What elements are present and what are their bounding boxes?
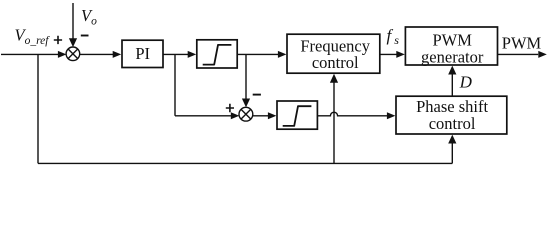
svg-text:PI: PI [135,44,150,63]
wire summing1 to PI [80,53,114,55]
svg-text:D: D [459,73,473,92]
label minus at summing2 [253,94,261,96]
block limiter1 [197,40,237,68]
wire bottom feedback [38,162,452,164]
label plus at summing1 [54,36,62,44]
arrowhead up into phase shift control bottom [448,135,456,144]
wire feedback up to phase shift control [451,143,453,164]
svg-text:Vo_ref: Vo_ref [15,25,51,47]
block PI [122,40,163,67]
wire phase shift control to PWM generator D [451,74,453,96]
wire frequency control to PWM generator [380,53,397,55]
wire input V_o_ref [1,53,58,55]
arrowhead into limiter1 [188,51,197,58]
arrowhead into phase shift control left [387,112,396,119]
summing junction 1 [66,47,80,61]
wire branch node after PI [174,54,176,115]
wire PWM output [498,53,539,55]
arrowhead into PI [113,51,122,58]
wire feedback up to frequency control [333,82,335,163]
wire branch to bottom feedback [37,54,39,163]
wire summing2 to limiter2 [253,115,269,117]
label plus at summing2 [226,104,234,113]
block limiter2 [277,101,317,129]
svg-text:control: control [429,114,476,133]
svg-text:generator: generator [421,48,484,67]
wire to summing2 plus [175,115,231,117]
arrowhead into PWM generator [396,51,405,58]
arrowhead up into PWM generator D [448,66,456,75]
wire limiter1 branch to summing2 minus [245,54,247,99]
arrowhead PWM output [538,51,547,58]
svg-text:PWM: PWM [502,34,542,53]
arrowhead into summing2 plus [231,112,240,119]
wire PI to limiter1 [163,53,189,55]
arrowhead into limiter2 [268,112,277,119]
arrowhead into summing1 [58,51,67,58]
label minus at summing1 [81,35,89,37]
svg-text:control: control [312,53,359,72]
wire V_o drop [72,3,74,39]
svg-text:Vo: Vo [81,6,97,28]
svg-text:PWM: PWM [432,30,472,49]
block frequency control [287,34,380,73]
summing junction 2 [239,107,253,121]
arrowhead up into frequency control [330,74,338,83]
wire limiter1 to frequency control [237,53,278,55]
arrowhead into summing2 minus [242,99,250,108]
block PWM generator [405,27,497,67]
arrowhead V_o down [69,38,77,47]
block phase shift control [396,96,507,134]
svg-text:fs: fs [387,26,400,47]
arrowhead into frequency control [278,51,287,58]
wire limiter2 to phase shift control with hop [317,112,388,116]
